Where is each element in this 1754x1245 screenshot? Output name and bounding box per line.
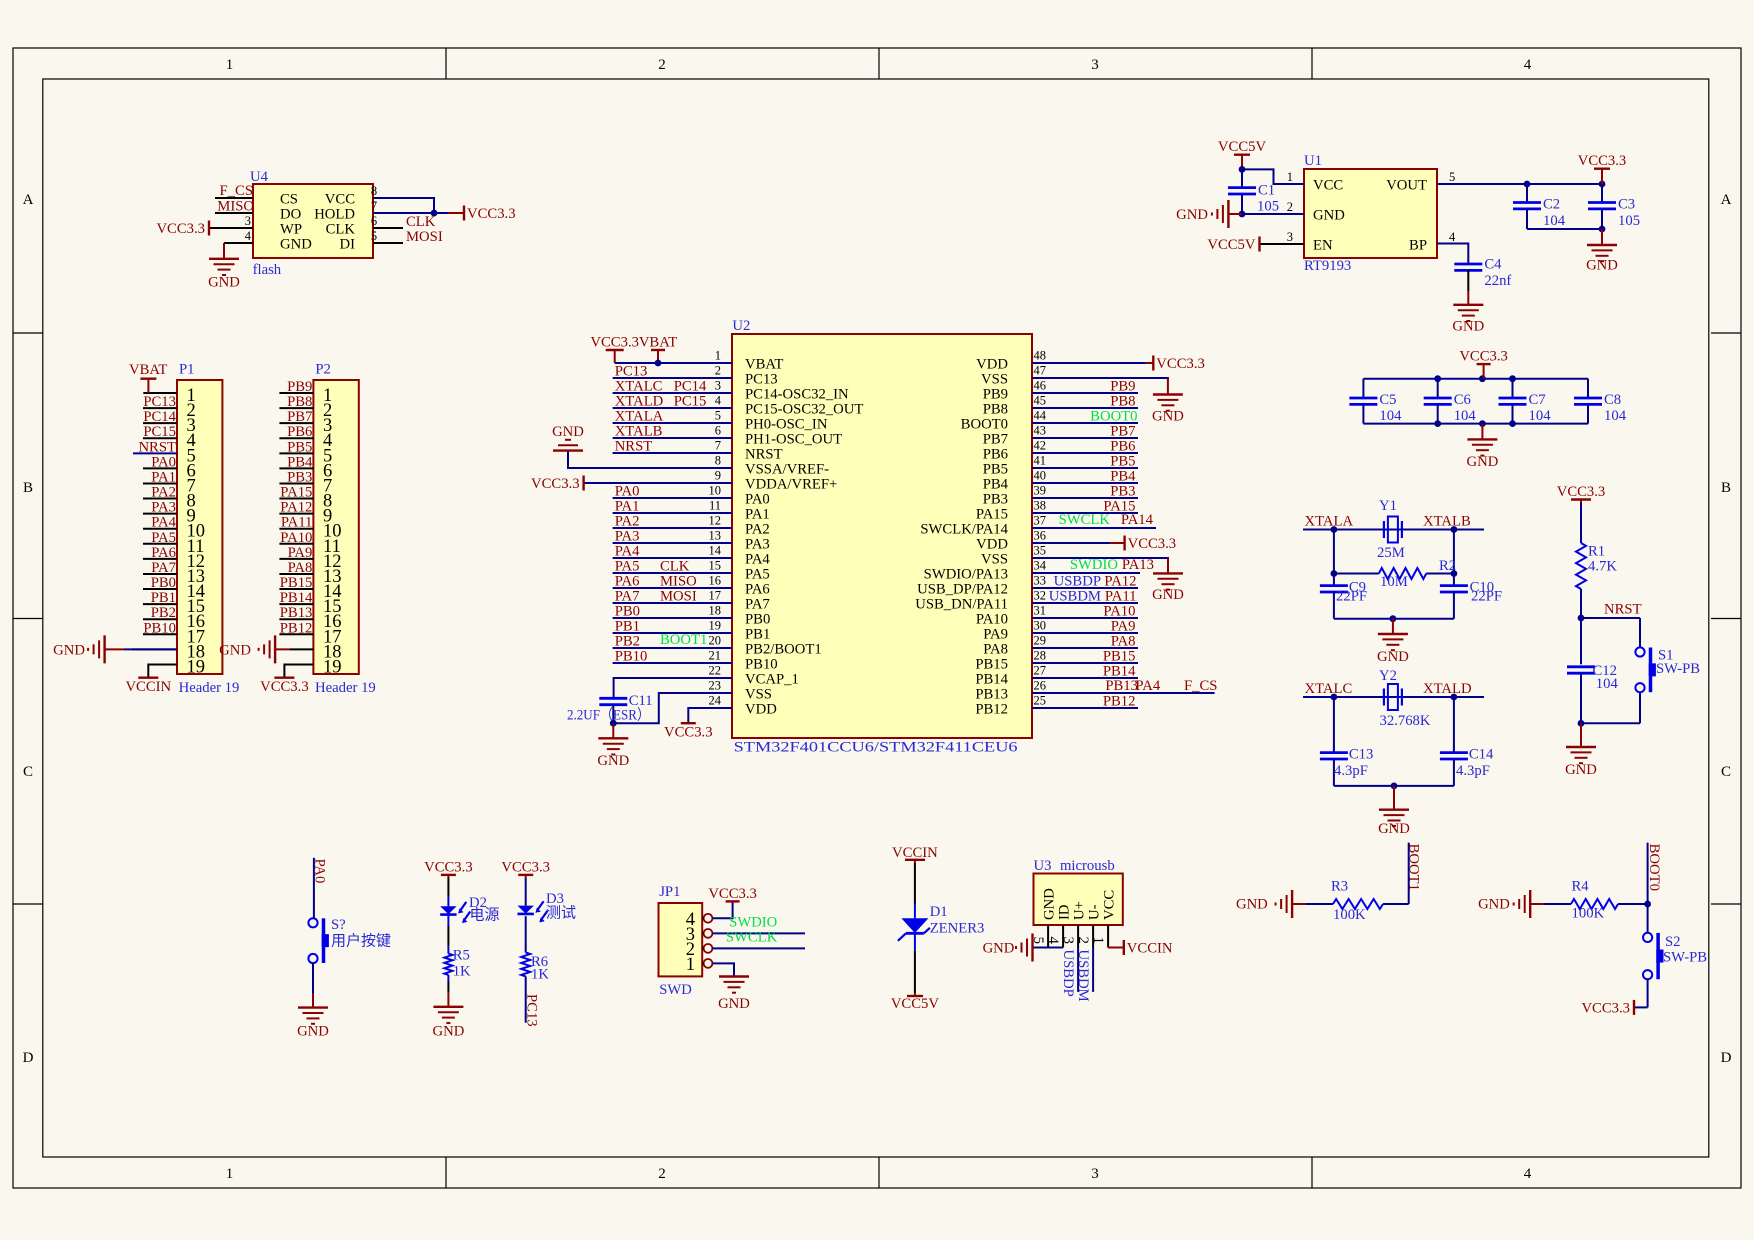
svg-text:BP: BP (1409, 238, 1427, 254)
svg-text:13: 13 (709, 529, 722, 543)
svg-text:BOOT1: BOOT1 (660, 632, 707, 648)
svg-text:VCC3.3: VCC3.3 (1156, 356, 1205, 372)
svg-text:GND: GND (1586, 258, 1618, 274)
svg-text:47: 47 (1034, 364, 1047, 378)
svg-text:6: 6 (715, 424, 721, 438)
svg-text:GND: GND (552, 424, 584, 440)
svg-text:40: 40 (1034, 469, 1047, 483)
svg-text:39: 39 (1034, 484, 1047, 498)
svg-text:100K: 100K (1333, 907, 1366, 923)
svg-text:104: 104 (1604, 408, 1627, 424)
svg-text:PA10: PA10 (976, 612, 1008, 628)
svg-text:PB8: PB8 (983, 402, 1008, 418)
svg-text:PB13: PB13 (280, 605, 313, 621)
svg-text:3: 3 (1091, 1166, 1099, 1182)
svg-text:XTALC: XTALC (1305, 681, 1353, 697)
svg-text:F_CS: F_CS (220, 183, 253, 199)
svg-text:PA6: PA6 (745, 582, 770, 598)
svg-text:A: A (23, 192, 34, 208)
svg-text:Y1: Y1 (1379, 498, 1397, 514)
svg-text:105: 105 (1618, 213, 1640, 229)
svg-text:PB10: PB10 (143, 620, 176, 636)
svg-text:EN: EN (1313, 238, 1333, 254)
svg-text:GND: GND (1176, 207, 1208, 223)
svg-text:GND: GND (1152, 408, 1184, 424)
svg-text:BOOT0: BOOT0 (1646, 844, 1662, 891)
svg-text:31: 31 (1034, 604, 1047, 618)
svg-text:35: 35 (1034, 544, 1047, 558)
svg-text:PB13: PB13 (1105, 678, 1138, 694)
svg-text:U3: U3 (1034, 858, 1052, 874)
svg-text:11: 11 (709, 499, 721, 513)
svg-text:PB9: PB9 (1110, 379, 1135, 395)
svg-text:Header 19: Header 19 (315, 680, 376, 696)
svg-text:B: B (23, 480, 33, 496)
svg-text:44: 44 (1034, 409, 1047, 423)
svg-text:C7: C7 (1529, 392, 1546, 408)
svg-text:PA15: PA15 (280, 485, 312, 501)
svg-text:CS: CS (280, 192, 298, 208)
svg-text:GND: GND (1377, 649, 1409, 665)
svg-text:PH0-OSC_IN: PH0-OSC_IN (745, 417, 828, 433)
svg-text:SWDIO: SWDIO (729, 914, 777, 930)
svg-text:CLK: CLK (660, 559, 690, 575)
svg-text:C3: C3 (1618, 197, 1635, 213)
svg-text:C: C (1721, 764, 1731, 780)
svg-text:VOUT: VOUT (1386, 178, 1427, 194)
svg-text:PC15: PC15 (674, 394, 707, 410)
svg-text:4: 4 (245, 229, 252, 243)
svg-text:PB15: PB15 (975, 657, 1008, 673)
svg-text:SWCLK: SWCLK (1059, 512, 1111, 528)
svg-text:D: D (1721, 1050, 1732, 1066)
svg-text:BOOT0: BOOT0 (1090, 409, 1137, 425)
svg-text:1K: 1K (531, 967, 549, 983)
svg-text:PB6: PB6 (287, 424, 312, 440)
svg-text:4.3pF: 4.3pF (1334, 763, 1368, 779)
svg-text:22PF: 22PF (1471, 589, 1502, 605)
svg-text:C13: C13 (1349, 747, 1373, 763)
svg-text:PA4: PA4 (151, 515, 176, 531)
svg-text:12: 12 (709, 514, 722, 528)
svg-text:PB15: PB15 (280, 575, 313, 591)
svg-text:PA8: PA8 (288, 560, 313, 576)
svg-text:测试: 测试 (546, 905, 576, 922)
svg-text:USB_DP/PA12: USB_DP/PA12 (917, 582, 1008, 598)
svg-text:BOOT1: BOOT1 (1406, 844, 1422, 891)
svg-text:VCC3.3: VCC3.3 (590, 335, 639, 351)
svg-text:U+: U+ (1072, 901, 1088, 920)
svg-text:PC14: PC14 (674, 379, 707, 395)
svg-text:29: 29 (1034, 634, 1047, 648)
svg-text:XTALD: XTALD (615, 394, 664, 410)
svg-text:电源: 电源 (470, 907, 500, 924)
svg-text:GND: GND (280, 237, 312, 253)
svg-text:MISO: MISO (660, 574, 697, 590)
svg-text:28: 28 (1034, 649, 1047, 663)
svg-text:22: 22 (709, 664, 722, 678)
svg-text:VSSA/VREF-: VSSA/VREF- (745, 462, 829, 478)
svg-text:JP1: JP1 (659, 884, 680, 900)
svg-text:2: 2 (658, 57, 666, 73)
svg-text:PA8: PA8 (1111, 634, 1136, 650)
svg-text:PC13: PC13 (143, 394, 176, 410)
svg-text:PB0: PB0 (615, 604, 640, 620)
svg-text:PA1: PA1 (151, 469, 176, 485)
svg-text:PB7: PB7 (287, 409, 312, 425)
svg-text:XTALB: XTALB (615, 424, 663, 440)
svg-text:PB14: PB14 (975, 672, 1008, 688)
svg-text:BOOT0: BOOT0 (961, 417, 1008, 433)
svg-text:8: 8 (715, 454, 721, 468)
svg-text:VCC5V: VCC5V (1218, 139, 1267, 155)
svg-text:PA0: PA0 (615, 484, 640, 500)
svg-text:SWCLK/PA14: SWCLK/PA14 (920, 522, 1008, 538)
svg-text:26: 26 (1034, 679, 1047, 693)
svg-text:PA5: PA5 (745, 567, 770, 583)
svg-text:PB1: PB1 (615, 619, 640, 635)
svg-text:VDDA/VREF+: VDDA/VREF+ (745, 477, 837, 493)
svg-text:U-: U- (1087, 904, 1103, 920)
svg-text:用户按键: 用户按键 (331, 933, 391, 950)
svg-text:PC13: PC13 (524, 994, 540, 1027)
svg-text:PB6: PB6 (983, 447, 1008, 463)
svg-text:VCC3.3: VCC3.3 (467, 206, 516, 222)
svg-text:PC14-OSC32_IN: PC14-OSC32_IN (745, 387, 849, 403)
svg-text:VCCIN: VCCIN (1127, 941, 1173, 957)
svg-text:46: 46 (1034, 379, 1047, 393)
svg-text:PA4: PA4 (615, 544, 640, 560)
svg-text:CLK: CLK (406, 214, 436, 230)
svg-text:3: 3 (715, 379, 721, 393)
svg-text:PA2: PA2 (151, 485, 176, 501)
svg-text:C1: C1 (1258, 183, 1275, 199)
svg-text:C5: C5 (1379, 392, 1396, 408)
svg-text:PB5: PB5 (983, 462, 1008, 478)
svg-text:PB4: PB4 (287, 454, 313, 470)
svg-text:GND: GND (219, 642, 251, 658)
svg-text:32: 32 (1034, 589, 1047, 603)
svg-text:R1: R1 (1588, 544, 1605, 560)
svg-text:7: 7 (715, 439, 721, 453)
svg-text:R3: R3 (1331, 879, 1348, 895)
svg-text:PB12: PB12 (975, 702, 1008, 718)
svg-text:USBDP: USBDP (1060, 950, 1076, 997)
svg-text:VCC3.3: VCC3.3 (708, 886, 757, 902)
svg-text:U1: U1 (1304, 153, 1322, 169)
svg-text:WP: WP (280, 222, 302, 238)
svg-text:104: 104 (1596, 676, 1619, 692)
svg-text:PB15: PB15 (1103, 649, 1136, 665)
svg-text:VCC: VCC (1313, 178, 1343, 194)
svg-text:19: 19 (323, 657, 342, 677)
svg-text:VCC3.3: VCC3.3 (1581, 1000, 1630, 1016)
svg-text:104: 104 (1543, 213, 1566, 229)
svg-text:4.3pF: 4.3pF (1456, 763, 1490, 779)
svg-text:PB10: PB10 (745, 657, 778, 673)
svg-text:4: 4 (1524, 57, 1532, 73)
svg-text:PA7: PA7 (745, 597, 770, 613)
svg-text:PA6: PA6 (151, 545, 176, 561)
svg-text:VCC5V: VCC5V (891, 996, 940, 1012)
svg-text:34: 34 (1034, 559, 1047, 573)
svg-text:HOLD: HOLD (314, 207, 355, 223)
svg-text:ID: ID (1057, 904, 1073, 920)
svg-text:PC13: PC13 (745, 372, 778, 388)
svg-text:C14: C14 (1469, 747, 1494, 763)
svg-text:10: 10 (709, 484, 722, 498)
svg-text:GND: GND (1152, 587, 1184, 603)
svg-text:microusb: microusb (1060, 858, 1115, 874)
svg-text:VCC3.3: VCC3.3 (260, 679, 309, 695)
svg-text:PA14: PA14 (1121, 512, 1154, 528)
svg-text:MISO: MISO (217, 199, 254, 215)
svg-text:PB3: PB3 (287, 469, 312, 485)
svg-text:1K: 1K (453, 963, 471, 979)
svg-text:43: 43 (1034, 424, 1047, 438)
svg-text:NRST: NRST (1604, 602, 1642, 618)
svg-text:VSS: VSS (981, 552, 1008, 568)
svg-text:36: 36 (1034, 529, 1047, 543)
svg-text:VBAT: VBAT (745, 357, 783, 373)
svg-text:3: 3 (1287, 230, 1293, 244)
svg-text:30: 30 (1034, 619, 1047, 633)
svg-text:STM32F401CCU6/STM32F411CEU6: STM32F401CCU6/STM32F411CEU6 (734, 740, 1018, 756)
svg-text:VCC3.3: VCC3.3 (1128, 536, 1177, 552)
svg-text:SWD: SWD (659, 982, 692, 998)
svg-text:VCC3.3: VCC3.3 (531, 476, 580, 492)
svg-text:PB4: PB4 (983, 477, 1009, 493)
svg-text:41: 41 (1034, 454, 1047, 468)
svg-text:PB10: PB10 (615, 649, 648, 665)
svg-text:GND: GND (432, 1023, 464, 1039)
svg-text:PB6: PB6 (1110, 439, 1135, 455)
svg-text:XTALA: XTALA (615, 409, 664, 425)
svg-text:PB0: PB0 (745, 612, 770, 628)
svg-text:PA0: PA0 (745, 492, 770, 508)
svg-text:3: 3 (245, 214, 251, 228)
svg-text:PB2/BOOT1: PB2/BOOT1 (745, 642, 822, 658)
svg-text:PA9: PA9 (1111, 619, 1136, 635)
svg-text:5: 5 (1449, 170, 1455, 184)
svg-text:14: 14 (709, 544, 722, 558)
svg-text:C4: C4 (1484, 257, 1502, 273)
svg-text:PA7: PA7 (151, 560, 176, 576)
svg-text:D: D (23, 1050, 34, 1066)
svg-text:GND: GND (208, 274, 240, 290)
svg-text:PB7: PB7 (1110, 424, 1135, 440)
svg-text:PA10: PA10 (1103, 604, 1135, 620)
svg-text:23: 23 (709, 679, 722, 693)
svg-text:PA3: PA3 (745, 537, 770, 553)
svg-text:NRST: NRST (138, 439, 176, 455)
svg-text:C2: C2 (1543, 197, 1560, 213)
svg-text:5: 5 (715, 409, 721, 423)
svg-text:4.7K: 4.7K (1588, 558, 1617, 574)
svg-text:R4: R4 (1572, 879, 1590, 895)
svg-text:PA2: PA2 (745, 522, 770, 538)
svg-text:32.768K: 32.768K (1380, 713, 1431, 729)
svg-text:PA0: PA0 (151, 454, 176, 470)
svg-text:PB14: PB14 (280, 590, 313, 606)
svg-text:VCC: VCC (325, 192, 355, 208)
svg-text:S2: S2 (1665, 934, 1681, 950)
svg-text:PC15-OSC32_OUT: PC15-OSC32_OUT (745, 402, 863, 418)
svg-text:1: 1 (686, 955, 695, 975)
svg-text:GND: GND (1565, 762, 1597, 778)
svg-text:PB9: PB9 (983, 387, 1008, 403)
svg-text:4: 4 (1524, 1166, 1532, 1182)
svg-text:18: 18 (709, 604, 722, 618)
svg-text:VCC3.3: VCC3.3 (664, 725, 713, 741)
svg-text:104: 104 (1529, 408, 1552, 424)
svg-text:VSS: VSS (981, 372, 1008, 388)
svg-text:GND: GND (983, 941, 1015, 957)
svg-text:GND: GND (1042, 888, 1058, 920)
svg-text:2: 2 (715, 364, 721, 378)
svg-text:42: 42 (1034, 439, 1047, 453)
svg-text:104: 104 (1379, 408, 1402, 424)
svg-text:8: 8 (371, 184, 377, 198)
svg-text:VCC3.3: VCC3.3 (1578, 153, 1627, 169)
svg-text:SW-PB: SW-PB (1656, 661, 1700, 677)
svg-text:9: 9 (715, 469, 721, 483)
svg-text:20: 20 (709, 634, 722, 648)
svg-text:37: 37 (1034, 514, 1047, 528)
svg-text:PA4: PA4 (745, 552, 770, 568)
svg-text:22PF: 22PF (1336, 589, 1367, 605)
svg-text:C8: C8 (1604, 392, 1621, 408)
svg-text:PB5: PB5 (287, 439, 312, 455)
svg-text:SWDIO/PA13: SWDIO/PA13 (924, 567, 1008, 583)
svg-text:GND: GND (1452, 319, 1484, 335)
svg-text:19: 19 (709, 619, 722, 633)
svg-text:21: 21 (709, 649, 722, 663)
svg-text:VBAT: VBAT (639, 335, 677, 351)
svg-text:Y2: Y2 (1379, 668, 1397, 684)
svg-text:VDD: VDD (745, 702, 777, 718)
svg-text:MOSI: MOSI (406, 229, 443, 245)
svg-text:PA8: PA8 (983, 642, 1008, 658)
svg-text:48: 48 (1034, 349, 1047, 363)
svg-text:B: B (1721, 480, 1731, 496)
svg-text:5: 5 (371, 229, 377, 243)
svg-text:DI: DI (340, 237, 356, 253)
svg-text:1: 1 (715, 349, 721, 363)
svg-text:7: 7 (371, 199, 377, 213)
svg-text:A: A (1721, 192, 1732, 208)
svg-text:XTALD: XTALD (1423, 681, 1472, 697)
svg-text:GND: GND (1378, 821, 1410, 837)
svg-text:PB5: PB5 (1110, 454, 1135, 470)
svg-text:R2: R2 (1439, 558, 1456, 574)
svg-text:GND: GND (1313, 208, 1345, 224)
svg-text:PA15: PA15 (976, 507, 1008, 523)
svg-text:PB8: PB8 (287, 394, 312, 410)
svg-text:VCC: VCC (1102, 890, 1118, 920)
svg-text:100K: 100K (1572, 906, 1605, 922)
svg-text:VCC3.3: VCC3.3 (424, 859, 473, 875)
svg-text:PB1: PB1 (745, 627, 770, 643)
svg-text:USBDM: USBDM (1049, 589, 1101, 605)
svg-text:GND: GND (1236, 897, 1268, 913)
svg-text:PH1-OSC_OUT: PH1-OSC_OUT (745, 432, 842, 448)
svg-text:GND: GND (53, 642, 85, 658)
svg-text:Header 19: Header 19 (179, 680, 240, 696)
svg-text:PB1: PB1 (151, 590, 176, 606)
svg-text:1: 1 (226, 1166, 234, 1182)
svg-text:PB12: PB12 (280, 620, 313, 636)
svg-text:C: C (23, 764, 33, 780)
svg-text:2: 2 (1287, 200, 1293, 214)
svg-text:PA3: PA3 (151, 500, 176, 516)
svg-text:22nf: 22nf (1484, 273, 1511, 289)
svg-text:VCC3.3: VCC3.3 (501, 859, 550, 875)
svg-text:USBDM: USBDM (1075, 950, 1091, 1002)
svg-text:XTALC: XTALC (615, 379, 663, 395)
svg-text:27: 27 (1034, 664, 1047, 678)
svg-text:VCC3.3: VCC3.3 (1459, 349, 1508, 365)
svg-text:4: 4 (1449, 230, 1456, 244)
svg-text:17: 17 (709, 589, 722, 603)
svg-text:GND: GND (1466, 454, 1498, 470)
svg-text:CLK: CLK (326, 222, 356, 238)
svg-text:PA10: PA10 (280, 530, 312, 546)
svg-text:105: 105 (1257, 199, 1279, 215)
svg-text:NRST: NRST (745, 447, 783, 463)
svg-text:VDD: VDD (976, 537, 1008, 553)
svg-text:PA12: PA12 (280, 500, 312, 516)
svg-text:P2: P2 (315, 362, 331, 378)
svg-text:PA9: PA9 (288, 545, 313, 561)
svg-text:C11: C11 (629, 693, 653, 709)
svg-text:PA2: PA2 (615, 514, 640, 530)
svg-text:PB4: PB4 (1110, 469, 1136, 485)
svg-text:P1: P1 (179, 362, 195, 378)
svg-text:PB7: PB7 (983, 432, 1008, 448)
svg-text:45: 45 (1034, 394, 1047, 408)
svg-text:XTALB: XTALB (1423, 514, 1471, 530)
svg-text:VCCIN: VCCIN (892, 845, 938, 861)
svg-text:1: 1 (1287, 170, 1293, 184)
svg-text:PA5: PA5 (615, 559, 640, 575)
svg-text:3: 3 (1091, 57, 1099, 73)
svg-text:USBDP: USBDP (1054, 574, 1101, 590)
svg-text:S?: S? (331, 917, 346, 933)
svg-text:PB2: PB2 (151, 605, 176, 621)
svg-text:D1: D1 (930, 904, 948, 920)
svg-text:PB2: PB2 (615, 634, 640, 650)
svg-text:24: 24 (709, 694, 722, 708)
svg-text:F_CS: F_CS (1184, 678, 1217, 694)
svg-text:RT9193: RT9193 (1304, 258, 1351, 274)
svg-text:PA11: PA11 (281, 515, 313, 531)
svg-text:PA6: PA6 (615, 574, 640, 590)
svg-text:PB3: PB3 (983, 492, 1008, 508)
svg-text:PA1: PA1 (615, 499, 640, 515)
svg-text:ZENER3: ZENER3 (930, 921, 985, 937)
svg-text:VCC3.3: VCC3.3 (156, 221, 205, 237)
svg-text:GND: GND (718, 996, 750, 1012)
svg-text:GND: GND (297, 1023, 329, 1039)
svg-text:4: 4 (715, 394, 722, 408)
svg-text:XTALA: XTALA (1305, 514, 1354, 530)
svg-text:flash: flash (253, 262, 282, 278)
svg-text:VDD: VDD (976, 357, 1008, 373)
svg-text:SWCLK: SWCLK (726, 929, 778, 945)
svg-text:SWDIO: SWDIO (1070, 557, 1118, 573)
svg-text:PA13: PA13 (1122, 557, 1154, 573)
